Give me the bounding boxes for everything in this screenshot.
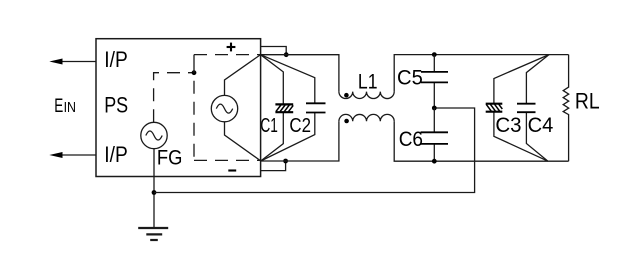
ground — [138, 228, 168, 240]
wire dashed box left — [193, 73, 195, 161]
noise source FG (AC source circle) — [141, 122, 167, 148]
resistor RL (load) — [563, 55, 569, 162]
wire top rail left (+ to L1) — [261, 55, 339, 92]
node C6 bottom junction — [432, 159, 437, 164]
svg-text:C1: C1 — [260, 115, 278, 137]
input arrow (bottom I/P) — [49, 152, 96, 158]
wire dashed box left (upper solid piece) — [193, 55, 195, 73]
label - terminal — [228, 169, 236, 171]
wire bottom rail right (L1 to load box) — [394, 121, 568, 161]
wire bottom rail left (- to L1) — [261, 121, 339, 161]
node FG/return junction — [152, 190, 157, 195]
node L1 top phase dot — [344, 93, 349, 98]
inductor L1 bottom winding — [339, 114, 394, 121]
svg-text:IN: IN — [64, 99, 76, 116]
capacitor C5 — [421, 55, 448, 108]
capacitor C4 — [517, 55, 549, 162]
input arrow (top I/P) — [49, 59, 96, 65]
capacitor C1 (feedthrough, hatched) — [261, 55, 294, 161]
wire dashed box bottom — [194, 159, 261, 161]
inductor L1 top winding — [339, 92, 394, 99]
wire dashed FG branch — [154, 73, 194, 123]
wire dashed box top — [194, 54, 261, 56]
svg-text:FG: FG — [157, 146, 183, 169]
svg-text:PS: PS — [104, 92, 128, 117]
node L1 bottom phase dot — [344, 119, 349, 124]
capacitor C2 — [261, 55, 326, 161]
svg-text:I/P: I/P — [104, 142, 128, 167]
node - stub junction — [283, 159, 288, 164]
node C5/C6 midpoint — [432, 106, 437, 111]
svg-text:C2: C2 — [289, 115, 311, 137]
svg-text:RL: RL — [575, 89, 600, 114]
AC source (main) — [211, 95, 237, 121]
svg-text:C5: C5 — [397, 65, 423, 89]
wire top rail right (L1 to load box) — [394, 55, 568, 92]
svg-text:E: E — [54, 95, 63, 117]
svg-text:L1: L1 — [358, 70, 378, 94]
node dashed junction — [192, 70, 197, 75]
power supply box PS — [96, 39, 261, 177]
wire AC source top to + fan — [225, 55, 261, 96]
wire return path (ground to C5/C6 midpoint) — [154, 108, 475, 193]
label + terminal — [227, 43, 236, 52]
svg-text:C4: C4 — [528, 114, 554, 137]
svg-text:I/P: I/P — [104, 47, 128, 72]
capacitor C6 — [421, 108, 449, 161]
svg-text:C3: C3 — [495, 114, 521, 137]
wire - terminal stub — [261, 161, 286, 171]
node + stub junction — [284, 52, 289, 57]
wire + terminal stub — [261, 47, 287, 55]
svg-text:C6: C6 — [399, 127, 423, 151]
capacitor C3 (feedthrough, hatched) — [486, 55, 549, 162]
wire AC source bottom to - fan — [225, 122, 261, 161]
node C5 top junction — [432, 52, 437, 57]
wire FG to ground — [153, 149, 155, 228]
